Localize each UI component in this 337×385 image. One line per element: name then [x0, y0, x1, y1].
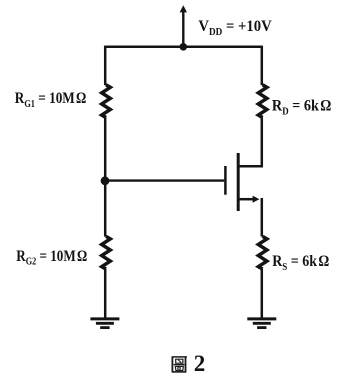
node VDD junction dot [180, 43, 188, 51]
resistor RG1 [102, 85, 111, 118]
node gate junction dot [101, 176, 110, 185]
gate bar [224, 166, 227, 195]
svg-text:2: 2 [194, 351, 206, 376]
wire gate lead [105, 179, 224, 181]
wire left branch lower [104, 269, 107, 318]
svg-text:RG2 = 10MΩ: RG2 = 10MΩ [16, 248, 87, 268]
resistor RD [258, 85, 267, 118]
wire left branch middle [104, 117, 107, 236]
transistor M1 (NMOS) [225, 153, 261, 211]
caption figure glyph (CJK tu) drawn [172, 357, 187, 372]
wire right branch lower [261, 269, 264, 318]
wire drain vertical [261, 117, 264, 167]
ground right [247, 319, 276, 328]
wire top rail [105, 46, 262, 49]
resistor RG2 [102, 236, 111, 269]
ground left [90, 319, 119, 328]
svg-text:VDD = +10V: VDD = +10V [198, 18, 272, 38]
svg-text:RD = 6kΩ: RD = 6kΩ [272, 98, 331, 118]
wire source vertical [261, 198, 264, 237]
svg-text:RS = 6kΩ: RS = 6kΩ [272, 253, 329, 273]
VDD supply arrow [180, 5, 187, 47]
wire left branch upper [104, 46, 107, 86]
wire right branch upper [261, 46, 264, 86]
channel bar [237, 153, 240, 211]
resistor RS [258, 236, 267, 269]
drain lead [239, 165, 262, 168]
svg-text:RG1 = 10MΩ: RG1 = 10MΩ [15, 90, 87, 110]
source lead with arrow [239, 198, 254, 201]
